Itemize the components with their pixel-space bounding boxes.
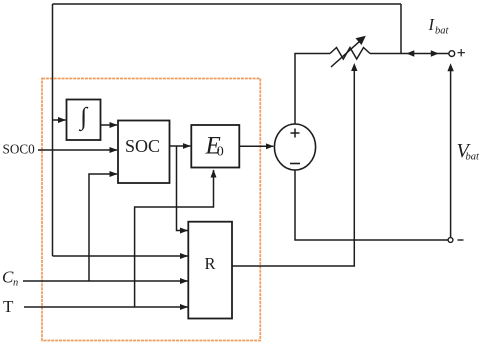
svg-text:n: n [13,278,18,289]
node: - terminal circle [448,238,453,243]
Vbat measurement arrow [450,70,452,237]
label Vbat [457,140,480,163]
wire: variable resistor to + terminal [370,53,449,55]
wire: source bottom to - terminal [295,170,448,240]
wire: Cn input into R [23,280,188,282]
voltage source circle [274,124,315,170]
svg-text:T: T [3,297,14,316]
label Cn [2,268,18,289]
wire: temperature branch up into E0 bottom [135,170,214,307]
op block E0 [191,125,239,168]
wire: R output controlling variable resistor [232,70,354,266]
wire: integrator output to SOC [101,124,118,126]
wire: T input into R [24,306,188,308]
node: + terminal circle [449,51,455,57]
wire: current branch into integrator [53,119,66,121]
svg-text:0: 0 [217,145,224,160]
wire: outer loop right drop to Ibat node [400,4,402,54]
svg-text:SOC: SOC [125,136,160,156]
integrator block [67,100,101,141]
wire: SOC output to E0 [170,145,191,147]
variable resistor diagonal arrow [331,39,362,67]
wire: SOC0 input into SOC [38,149,117,151]
current arrowhead pointing right near + terminal [431,50,439,57]
wire: SOC branch down into R [177,146,188,231]
svg-text:∫: ∫ [78,104,88,132]
wire: Cn branch up into SOC [89,174,117,281]
svg-text:R: R [204,254,215,273]
wire: source top up to variable resistor [295,54,330,125]
wire: current input into R block [53,255,188,257]
label Ibat [428,15,450,37]
SOC block [118,121,170,184]
subsystem boundary (orange dashed box) [42,79,260,341]
svg-text:SOC0: SOC0 [3,142,36,157]
plus sign inside source [291,129,300,138]
svg-text:bat: bat [466,152,480,163]
plus sign at terminal [458,49,465,56]
minus sign inside source [290,163,300,165]
wire: outer current-feedback loop top [53,3,402,5]
variable resistor zigzag [330,48,370,60]
R block [188,222,232,319]
minus sign at terminal [458,239,464,241]
wire: outer loop left drop [52,4,54,256]
current arrowhead pointing left at junction [406,50,414,57]
svg-text:bat: bat [435,26,450,37]
wire: E0 output into voltage source [239,145,273,147]
